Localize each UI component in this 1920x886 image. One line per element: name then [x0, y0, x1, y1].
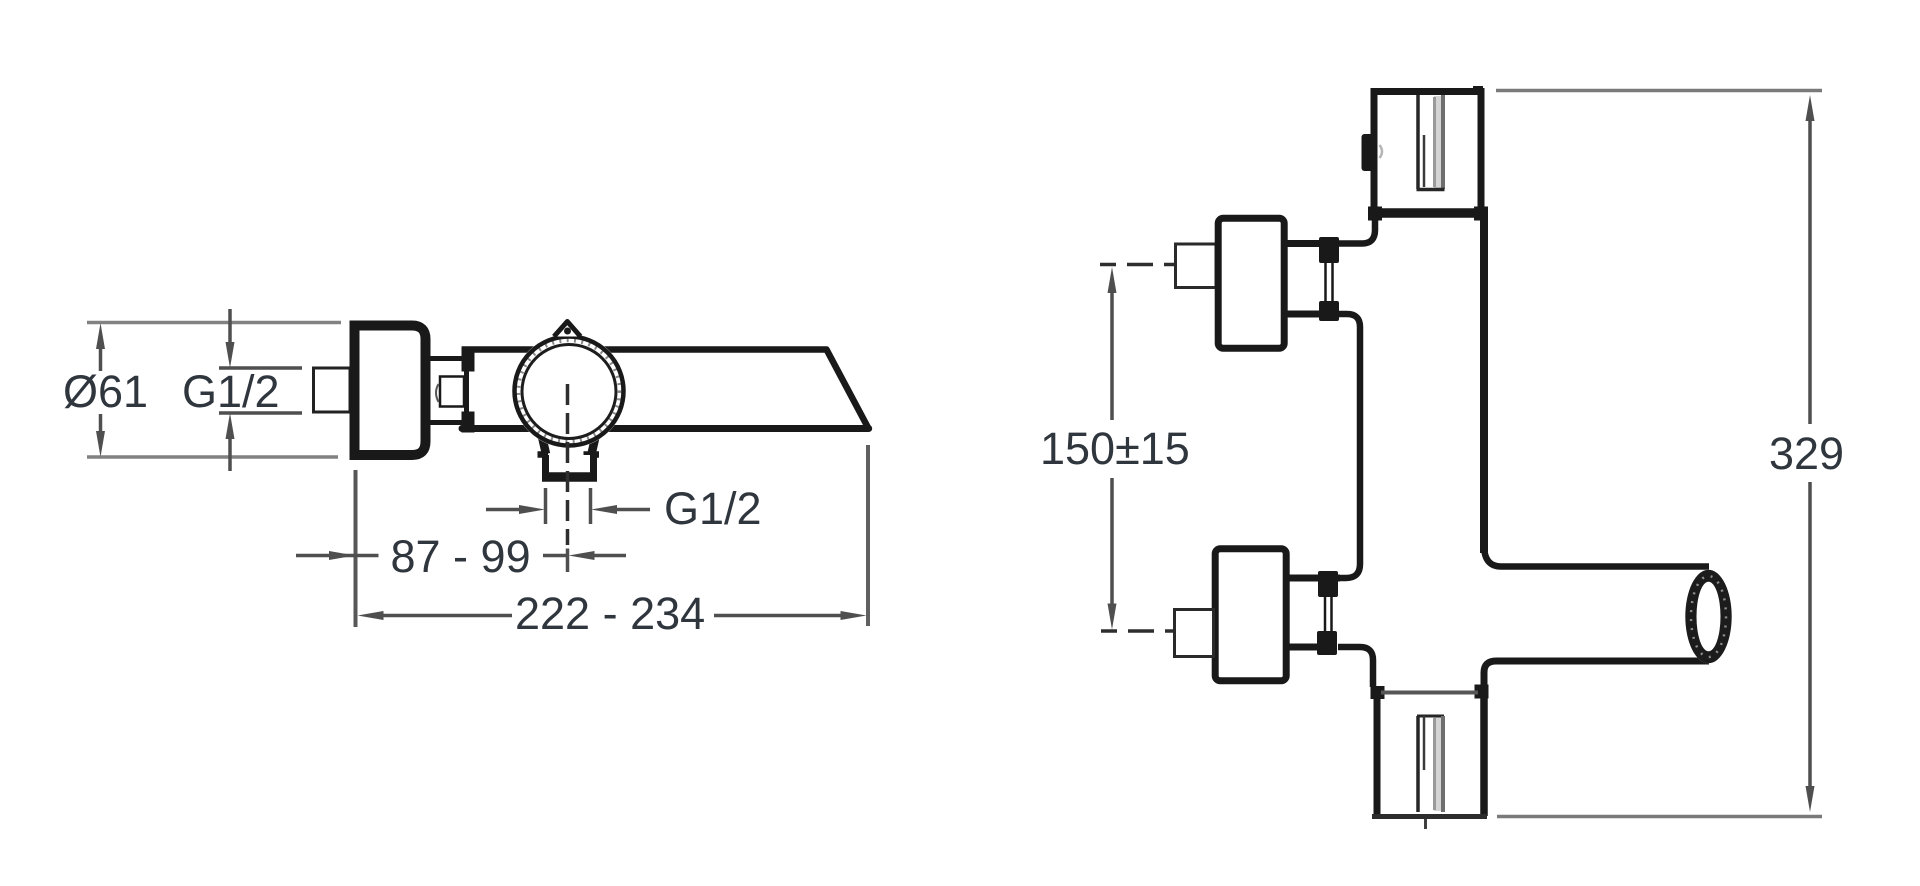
dimension G1/2 wall stub: arrows	[228, 309, 232, 344]
spout bottom edge and step down	[1484, 661, 1709, 688]
svg-text:G1/2: G1/2	[182, 366, 280, 417]
dimension 329: line and arrows	[1806, 95, 1815, 121]
shower outlet stub G1/2	[542, 455, 597, 481]
centerline tick at 87-99 row	[566, 549, 570, 573]
wall flange (side view)	[355, 326, 426, 456]
connector neck box	[426, 359, 467, 423]
svg-text:329: 329	[1769, 428, 1844, 479]
bottom knob left edge	[1374, 695, 1381, 817]
top knob outline	[1374, 92, 1481, 214]
dimension G1/2 outlet: left arrow	[486, 508, 521, 512]
inner square of connector	[440, 377, 464, 407]
spout top edge	[1484, 545, 1709, 567]
wall pipe stub G1/2 (side view)	[314, 368, 351, 412]
bottom knob center tick	[1424, 819, 1427, 829]
bottom knob bottom edge	[1372, 814, 1487, 819]
upper joint to knob	[1339, 213, 1375, 244]
small arc left of inner square	[436, 384, 439, 402]
svg-text:150±15: 150±15	[1040, 423, 1190, 474]
bottom knob slot	[1417, 716, 1444, 812]
dimension G1/2 wall stub: extension lines	[219, 366, 302, 370]
top knob side button	[1362, 134, 1375, 171]
upper inlet centerline (dashed)	[1100, 263, 1266, 267]
dimension 222-234: line and arrows	[358, 611, 384, 620]
dimension 87-99: right arrow (outside)	[543, 554, 568, 558]
joint riser bottom (black)	[462, 412, 475, 433]
lower joint to bottom knob	[1338, 647, 1373, 687]
spout end ellipse	[1685, 570, 1731, 664]
svg-text:87 - 99: 87 - 99	[391, 531, 531, 582]
dimension O61: extension lines	[87, 321, 341, 325]
shower outlet collar below circle	[538, 430, 600, 455]
bottom knob junction dots	[1475, 685, 1489, 699]
bottom knob top edge (gray)	[1381, 691, 1478, 695]
upper inlet stub	[1176, 244, 1217, 288]
svg-text:222 - 234: 222 - 234	[515, 588, 705, 639]
dimension 87-99: left arrow (outside)	[296, 554, 379, 558]
dimension G1/2 outlet: extension ticks	[544, 488, 548, 524]
upper joint: neck lines	[1285, 240, 1330, 247]
top knob corner dots	[1368, 207, 1382, 221]
indicator tip on circle top	[554, 322, 581, 337]
body right edge	[1480, 210, 1488, 553]
svg-text:G1/2: G1/2	[664, 483, 762, 534]
dimension 150+-15: line and arrows	[1108, 267, 1117, 293]
lower wall flange	[1215, 549, 1286, 681]
dimension G1/2 outlet: right arrow	[591, 505, 617, 514]
top knob bottom edge	[1371, 208, 1484, 218]
joint riser top (black)	[462, 347, 475, 372]
upper wall flange	[1218, 218, 1284, 348]
lower joint: neck lines	[1285, 575, 1340, 582]
extension line left (flange face)	[354, 470, 358, 627]
dashed centerline through outlet	[566, 384, 570, 545]
lower inlet centerline (dashed)	[1101, 629, 1264, 633]
dimension 329: extension lines	[1496, 89, 1822, 93]
bottom knob right edge	[1480, 692, 1488, 816]
top knob corner mark top-right	[1473, 86, 1483, 95]
dimension O61: arrows and line	[96, 323, 105, 349]
svg-text:Ø61: Ø61	[63, 366, 148, 417]
top knob slot	[1417, 95, 1445, 190]
extension line right (spout tip)	[866, 445, 870, 626]
lower inlet stub	[1175, 610, 1214, 657]
temperature handle circle (side view)	[512, 334, 626, 448]
body / spout bottom edge	[462, 425, 869, 432]
body top edge and spout angled cut	[462, 350, 869, 429]
body left edge	[1334, 314, 1360, 578]
